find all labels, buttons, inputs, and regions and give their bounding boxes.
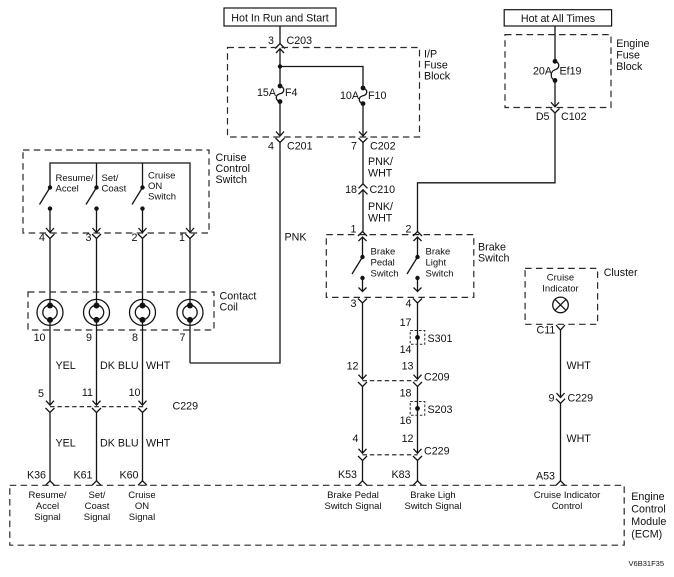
svg-text:WHT: WHT [368,213,393,225]
svg-text:ON: ON [148,181,162,192]
svg-text:DK BLU: DK BLU [100,360,139,372]
svg-text:Light: Light [426,258,447,269]
svg-text:Coast: Coast [102,184,127,195]
svg-text:C11: C11 [536,325,555,337]
svg-text:Block: Block [424,71,451,83]
ECM terminal A53 [536,471,565,486]
wire F10 to C202 [362,104,364,136]
wires from cruise switch pins to contact coil [49,239,51,306]
Engine Control Module ECM dashed box [10,485,624,545]
svg-text:20A: 20A [533,66,553,78]
svg-text:S203: S203 [428,404,453,416]
svg-text:10: 10 [34,332,46,344]
connector C209 pins 12 13 [347,361,450,387]
svg-text:A53: A53 [536,471,555,483]
Cruise Control Switch dashed box [23,150,209,233]
svg-text:3: 3 [86,232,92,244]
svg-text:C102: C102 [561,111,587,123]
svg-text:(ECM): (ECM) [631,529,662,541]
wires from contact coil down [49,320,51,405]
svg-text:11: 11 [82,387,93,399]
contact coil ring pin 7 [177,299,203,325]
coil pin labels 10 9 8 7 [34,332,186,344]
Engine Fuse Block label [616,38,649,73]
svg-text:Switch: Switch [216,174,248,186]
connector pin 3 of cruise switch [86,228,101,244]
connector C201 pin 4 [268,132,313,153]
svg-text:Engine: Engine [616,38,649,50]
svg-text:C201: C201 [287,141,313,153]
svg-text:Brake: Brake [426,247,451,258]
svg-text:Block: Block [616,61,643,73]
wire brake pedal switch to C209 [362,303,364,379]
ECM signal label Brake Ligh Switch Signal [404,490,461,512]
svg-text:Control: Control [631,504,665,516]
wire Hot at All Times to fuse Ef19 [554,26,556,61]
svg-text:3: 3 [351,298,357,310]
svg-text:PNK/: PNK/ [368,201,393,213]
I/P Fuse Block label [424,49,451,83]
switch Set/Coast [86,173,127,211]
Contact Coil label [220,291,257,314]
wire Ef19 to C102 [554,80,556,106]
svg-text:13: 13 [402,361,414,373]
svg-text:Accel: Accel [36,501,59,512]
connector C229 pins 4 12 [353,433,450,461]
wire color labels YEL DK BLU WHT [56,360,171,372]
wire branch to F10 [280,67,363,89]
power feed box Hot at All Times [504,10,611,26]
svg-text:D5: D5 [536,111,550,123]
wire PNK from C201 down and across to contact coil pin 7 [190,143,280,364]
svg-text:Signal: Signal [84,512,110,523]
svg-text:Coast: Coast [85,501,110,512]
svg-text:4: 4 [268,141,274,153]
svg-text:4: 4 [39,232,45,244]
svg-text:DK BLU: DK BLU [100,438,139,450]
svg-text:Cluster: Cluster [604,267,638,279]
svg-text:7: 7 [351,141,357,153]
svg-text:C210: C210 [370,184,396,196]
switch Cruise ON [132,171,176,211]
cruise indicator lamp [542,273,578,313]
svg-text:WHT: WHT [368,168,393,180]
wires from switches to box edge connectors [49,209,51,233]
connector C229 pins 5 11 10 [38,387,198,413]
splice S301 [400,317,453,356]
wire label PNK/WHT [368,201,393,225]
ECM terminals K36 K61 K60 [27,470,147,486]
bus wire inside cruise control switch [50,163,190,233]
svg-text:Cruise: Cruise [128,490,155,501]
svg-text:Switch: Switch [478,253,510,265]
svg-text:12: 12 [347,361,359,373]
svg-text:Coil: Coil [220,302,238,314]
wire color labels YEL DK BLU WHT lower [56,438,171,450]
svg-text:F10: F10 [368,90,386,102]
ECM signal label Cruise Indicator Control [534,490,601,512]
connector C202 pin 7 [351,132,396,153]
Engine Fuse Block dashed box [505,35,611,108]
svg-text:1: 1 [179,232,185,244]
svg-text:K60: K60 [119,470,138,482]
svg-text:C229: C229 [173,401,199,413]
svg-text:Brake: Brake [371,247,396,258]
contact coil ring pin 10 [37,299,63,325]
svg-text:15A: 15A [257,87,277,99]
svg-text:Hot In Run and Start: Hot In Run and Start [231,13,328,25]
svg-text:Set/: Set/ [102,173,119,184]
svg-text:9: 9 [549,393,555,405]
svg-text:C229: C229 [568,393,594,405]
svg-text:4: 4 [406,298,412,310]
svg-text:WHT: WHT [146,438,171,450]
connector C11 at cluster [536,325,565,337]
svg-text:Switch: Switch [148,192,176,203]
switch Resume/Accel [40,173,94,211]
ECM signal label Resume/Accel Signal [28,490,66,523]
wire from C102 to brake light switch pin 2 [418,113,556,232]
connector C203 pin 3 [268,35,312,53]
node junction to F10 branch [278,64,282,68]
svg-text:14: 14 [400,344,412,356]
fuse F4 15A [257,84,298,104]
wire C209 to C229 (brake pedal) [362,387,364,454]
Contact Coil dashed box [28,292,214,330]
connector pin 2 of brake switch [406,224,422,242]
svg-text:4: 4 [353,433,359,445]
svg-text:18: 18 [400,388,412,400]
wire inside fuse block to F4 [279,49,281,86]
connector pin 1 of cruise switch [179,228,194,244]
svg-text:C202: C202 [370,141,396,153]
svg-text:8: 8 [132,332,138,344]
svg-text:7: 7 [180,332,186,344]
svg-text:Fuse: Fuse [616,50,640,62]
svg-text:C209: C209 [424,372,450,384]
wire WHT cluster to C229 [560,330,562,397]
svg-text:Resume/: Resume/ [56,173,94,184]
svg-text:Indicator: Indicator [542,284,578,295]
brake light switch [407,237,453,292]
ECM signal label Brake Pedal Switch Signal [324,490,381,512]
connector pin 4 of cruise switch [39,228,54,244]
wires C229 to ECM K53 K83 [362,461,364,482]
Brake Switch label [478,242,510,265]
ECM signal label Cruise ON Signal [128,490,155,523]
in-line connector C210 pin 18 [345,184,395,196]
wire brake light switch to S301 [417,303,419,379]
svg-text:K61: K61 [73,470,92,482]
svg-text:K83: K83 [391,469,410,481]
svg-text:18: 18 [345,184,357,196]
svg-text:5: 5 [38,388,44,400]
connector pin 1 of brake switch [351,224,367,242]
svg-text:Hot at All Times: Hot at All Times [521,13,595,25]
fuse Ef19 20A [533,59,582,83]
svg-text:F4: F4 [285,87,298,99]
svg-text:10: 10 [129,387,141,399]
svg-text:3: 3 [268,35,274,47]
svg-text:10A: 10A [340,90,360,102]
svg-text:Resume/: Resume/ [28,490,66,501]
connector pin 2 of cruise switch [132,228,147,244]
svg-text:C203: C203 [287,35,313,47]
wire PNK/WHT from C202 to C210 [362,143,364,184]
svg-text:S301: S301 [428,333,453,345]
svg-text:K36: K36 [27,470,46,482]
wire C209 to S203 (brake light) [417,387,419,454]
brake pedal switch [352,237,398,292]
I/P Fuse Block dashed box [228,48,420,138]
svg-text:WHT: WHT [567,433,592,445]
Brake Switch dashed box [326,235,474,298]
wire WHT C229 to ECM A53 [560,403,562,481]
wire from Hot In Run box to C203 [279,26,281,44]
wires from C229 to ECM [49,413,51,482]
connector C102 pin D5 [536,102,587,123]
in-line connector C229 pin 9 [549,393,594,405]
svg-text:2: 2 [406,224,412,236]
svg-text:Cruise Indicator: Cruise Indicator [534,490,601,501]
svg-text:K53: K53 [338,469,357,481]
svg-text:1: 1 [351,224,357,236]
svg-text:9: 9 [86,332,92,344]
svg-text:WHT: WHT [146,360,171,372]
svg-text:2: 2 [132,232,138,244]
wire F4 to C201 [279,102,281,136]
connector pin 3 of brake switch [351,288,367,311]
connector pin 4 of brake switch [406,288,422,311]
wire PNK/WHT from C210 to brake switch pin 1 [362,190,364,232]
wire label PNK/WHT [368,156,393,180]
svg-text:Signal: Signal [129,512,155,523]
svg-text:Accel: Accel [56,184,79,195]
svg-text:Switch Signal: Switch Signal [324,501,381,512]
svg-text:Set/: Set/ [89,490,106,501]
power feed box Hot In Run and Start [224,8,336,26]
svg-text:Engine: Engine [631,491,664,503]
svg-text:Cruise: Cruise [547,273,574,284]
ECM signal label Set/Coast Signal [84,490,110,523]
svg-text:V6B31F35: V6B31F35 [629,559,664,568]
contact coil ring pin 8 [130,299,156,325]
svg-text:Ef19: Ef19 [560,66,582,78]
ECM label [631,491,666,541]
svg-text:16: 16 [400,415,412,427]
svg-text:Brake Pedal: Brake Pedal [327,490,379,501]
Cruise Control Switch label [216,152,250,186]
svg-text:Signal: Signal [34,512,60,523]
svg-text:C229: C229 [424,446,450,458]
svg-text:17: 17 [400,317,412,329]
svg-text:PNK/: PNK/ [368,156,393,168]
svg-text:PNK: PNK [285,232,308,244]
Cluster dashed box [525,268,598,324]
svg-text:ON: ON [135,501,149,512]
splice S203 [400,388,453,428]
svg-text:Brake Ligh: Brake Ligh [410,490,455,501]
contact coil ring pin 9 [84,299,110,325]
svg-text:WHT: WHT [567,360,592,372]
svg-text:Module: Module [631,516,666,528]
svg-text:YEL: YEL [56,438,76,450]
svg-text:Switch Signal: Switch Signal [404,501,461,512]
fuse F10 10A [340,86,387,106]
svg-text:Switch: Switch [426,269,454,280]
ECM terminals K53 K83 [338,469,422,485]
svg-text:12: 12 [402,433,414,445]
svg-text:Cruise: Cruise [148,171,175,182]
svg-text:Switch: Switch [371,269,399,280]
svg-text:Control: Control [552,501,583,512]
svg-text:YEL: YEL [56,360,76,372]
svg-text:Pedal: Pedal [371,258,395,269]
